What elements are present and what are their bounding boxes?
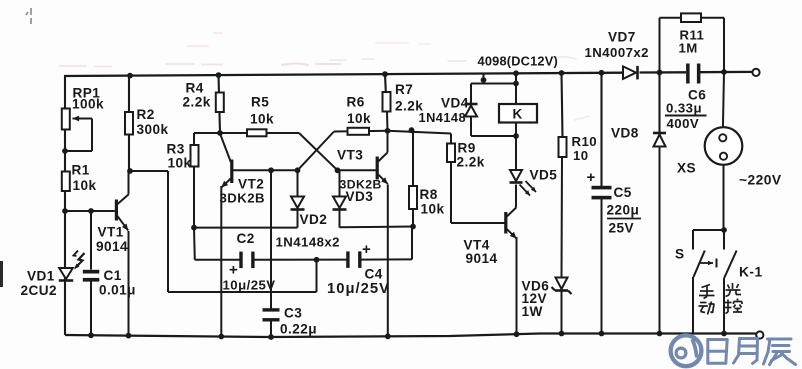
- svg-text:0.22μ: 0.22μ: [280, 322, 317, 337]
- svg-text:R7: R7: [395, 82, 413, 97]
- svg-text:C2: C2: [237, 231, 255, 246]
- svg-text:1N4148x2: 1N4148x2: [276, 235, 340, 250]
- svg-text:+: +: [229, 262, 238, 279]
- svg-text:10μ/25V: 10μ/25V: [327, 281, 390, 297]
- svg-text:10k: 10k: [421, 202, 445, 217]
- svg-text:10k: 10k: [250, 112, 274, 127]
- svg-text:R9: R9: [458, 141, 476, 156]
- svg-text:VD1: VD1: [27, 269, 55, 284]
- svg-text:VD5: VD5: [530, 168, 558, 183]
- svg-text:1W: 1W: [522, 304, 543, 319]
- svg-text:R8: R8: [420, 187, 438, 202]
- svg-text:1N4148: 1N4148: [419, 110, 467, 125]
- svg-text:VD7: VD7: [608, 30, 636, 45]
- svg-text:K-1: K-1: [739, 265, 763, 280]
- svg-text:K: K: [513, 107, 523, 122]
- svg-text:+: +: [362, 241, 371, 258]
- svg-text:VT1: VT1: [98, 225, 124, 240]
- svg-text:R10: R10: [572, 134, 598, 149]
- svg-text:1M: 1M: [679, 41, 698, 56]
- svg-text:2CU2: 2CU2: [21, 283, 58, 298]
- svg-text:C3: C3: [284, 306, 302, 321]
- svg-text:~220V: ~220V: [739, 173, 782, 188]
- svg-text:+: +: [587, 169, 596, 186]
- svg-text:R4: R4: [186, 81, 204, 96]
- svg-text:10k: 10k: [73, 178, 97, 193]
- svg-text:R6: R6: [347, 94, 365, 109]
- svg-text:3DK2B: 3DK2B: [220, 191, 266, 206]
- svg-text:0.01μ: 0.01μ: [99, 283, 136, 298]
- svg-text:0.33μ: 0.33μ: [666, 101, 702, 116]
- svg-text:VD2: VD2: [300, 212, 328, 227]
- svg-text:10μ/25V: 10μ/25V: [223, 278, 276, 293]
- svg-text:10: 10: [573, 148, 589, 163]
- svg-text:VT3: VT3: [337, 148, 363, 163]
- svg-text:R5: R5: [251, 95, 269, 110]
- svg-text:R1: R1: [72, 163, 90, 178]
- svg-text:9014: 9014: [466, 251, 498, 266]
- svg-text:300k: 300k: [137, 122, 169, 137]
- svg-text:VD3: VD3: [346, 189, 374, 204]
- svg-text:C1: C1: [104, 268, 122, 283]
- svg-text:4098(DC12V): 4098(DC12V): [478, 54, 558, 69]
- svg-text:R3: R3: [167, 142, 185, 157]
- svg-text:VD8: VD8: [611, 126, 639, 141]
- svg-text:XS: XS: [677, 161, 696, 176]
- svg-text:R2: R2: [137, 107, 155, 122]
- svg-text:C4: C4: [365, 267, 383, 282]
- svg-text:1N4007x2: 1N4007x2: [585, 45, 649, 60]
- svg-text:220μ: 220μ: [607, 203, 640, 218]
- svg-text:25V: 25V: [609, 221, 635, 236]
- svg-text:10k: 10k: [168, 156, 192, 171]
- svg-text:9014: 9014: [96, 239, 128, 254]
- svg-text:2.2k: 2.2k: [457, 155, 485, 170]
- svg-text:VD4: VD4: [441, 96, 469, 111]
- svg-text:VT2: VT2: [238, 177, 264, 192]
- svg-text:2.2k: 2.2k: [183, 95, 211, 110]
- svg-text:100k: 100k: [72, 97, 104, 112]
- svg-text:10k: 10k: [347, 111, 371, 126]
- svg-text:S: S: [675, 247, 685, 262]
- svg-text:400V: 400V: [667, 116, 700, 131]
- svg-text:C5: C5: [614, 185, 632, 200]
